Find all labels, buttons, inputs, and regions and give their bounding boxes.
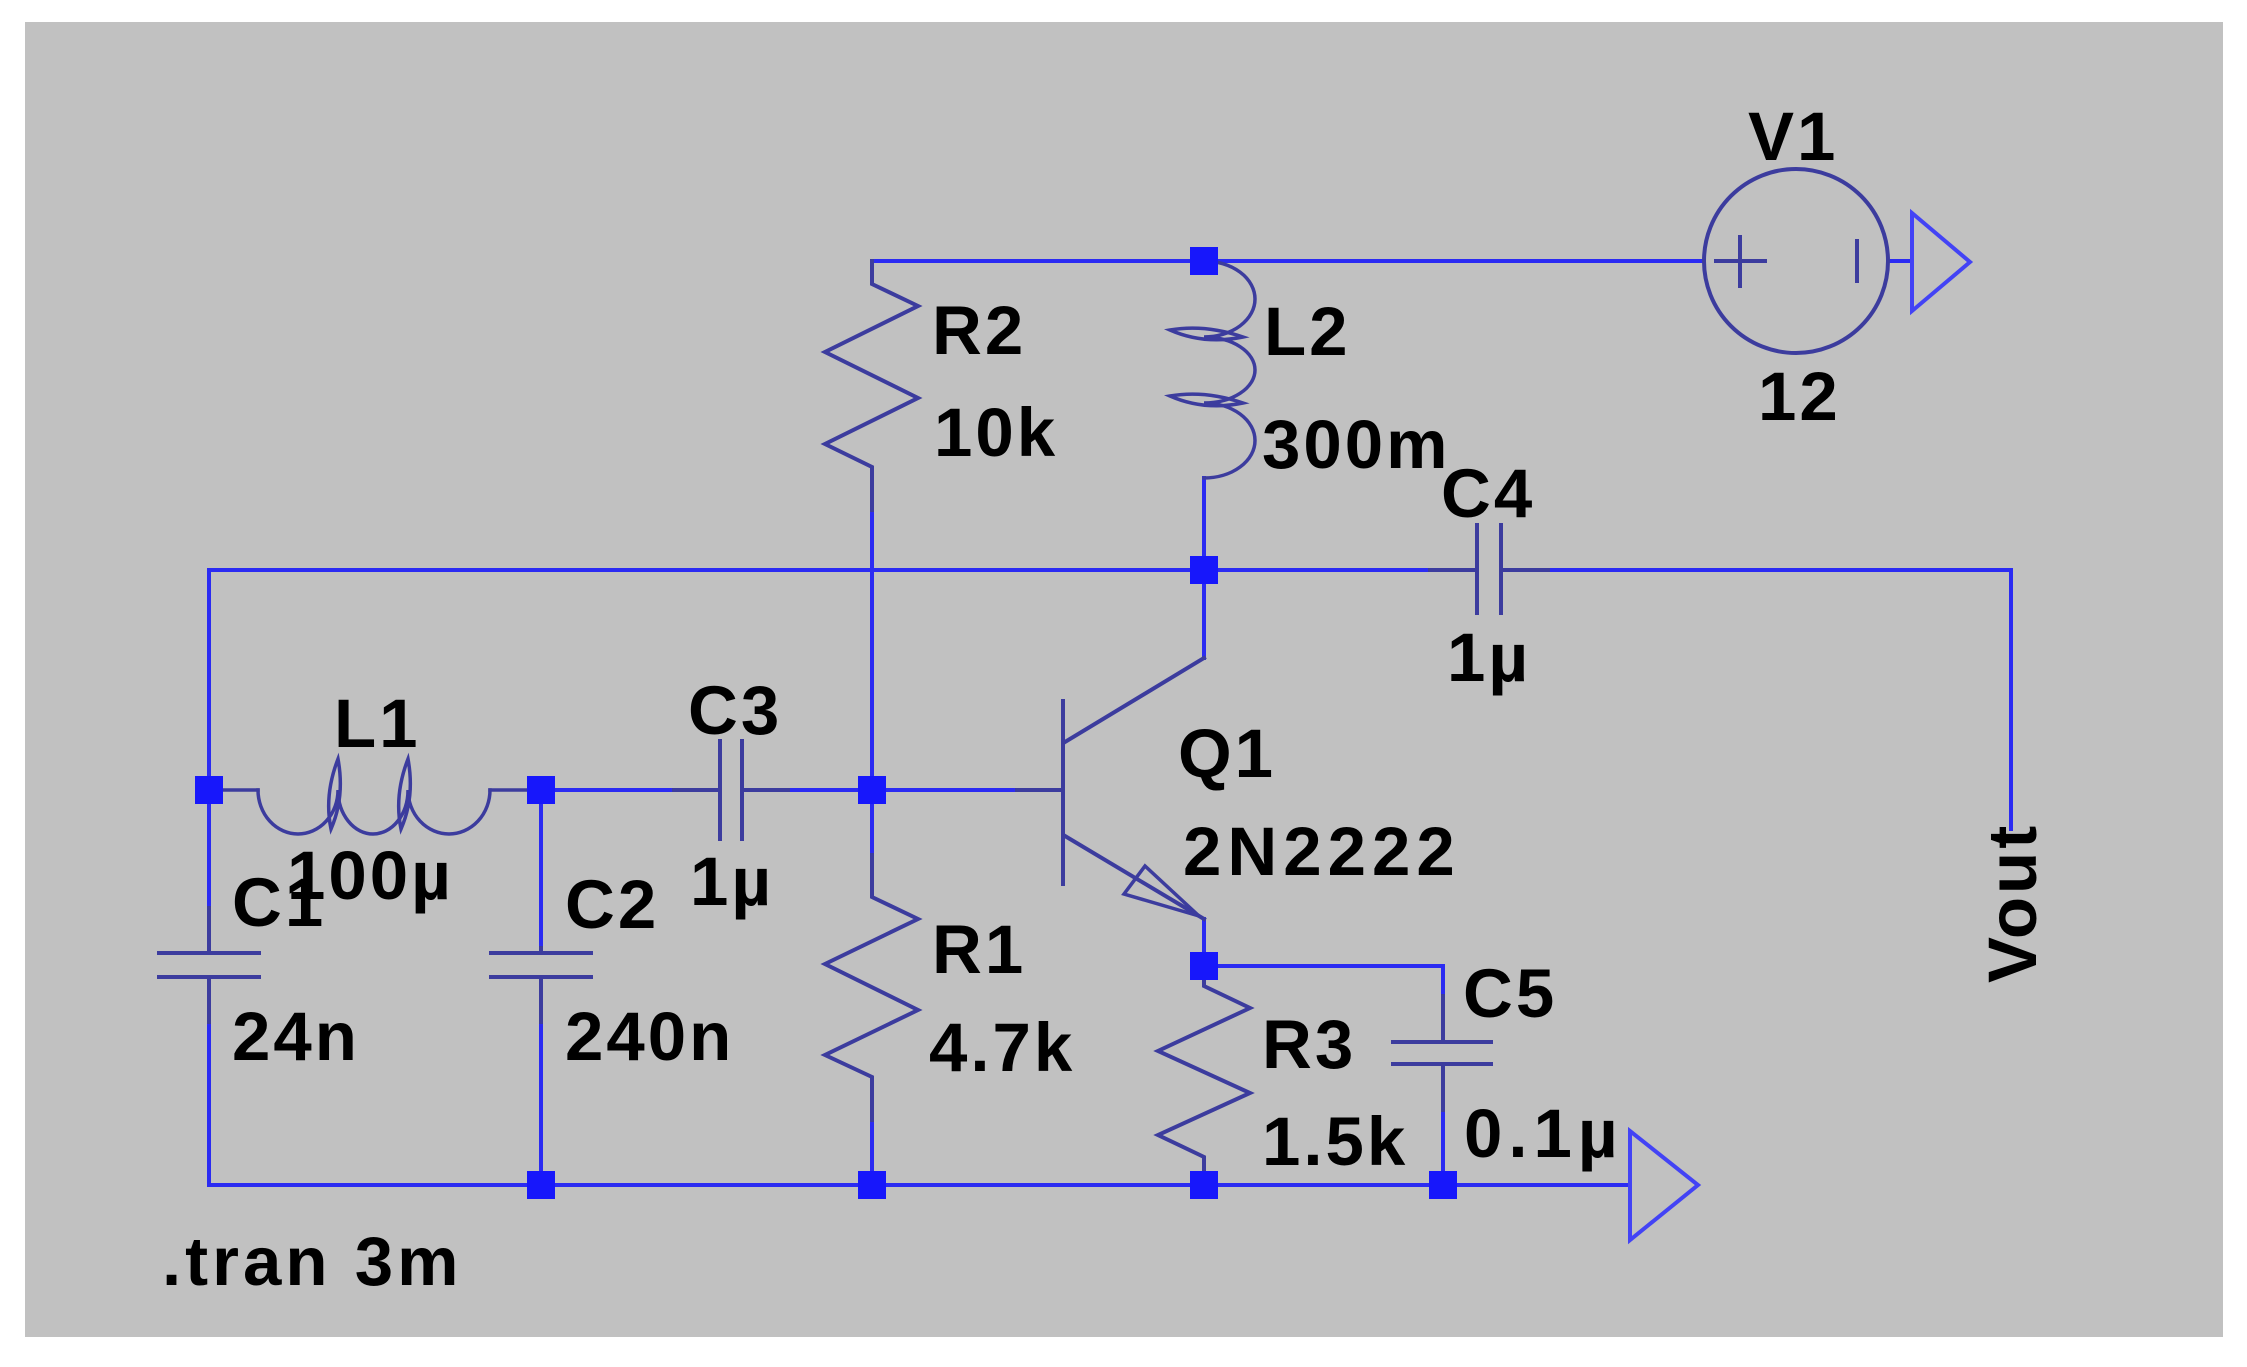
wire C3 right plate to base node xyxy=(788,788,872,792)
svg-text:R2: R2 xyxy=(932,292,1026,369)
wire R1 top lead from base node xyxy=(870,790,874,855)
svg-text:100µ: 100µ xyxy=(287,837,454,914)
wire right corner down to Vout label xyxy=(2009,570,2013,829)
node at left wire / L1 xyxy=(195,776,223,804)
svg-text:Vout: Vout xyxy=(1974,823,2051,983)
svg-text:24n: 24n xyxy=(232,998,360,1075)
wire C2 branch lower xyxy=(539,977,543,1185)
svg-text:C4: C4 xyxy=(1441,455,1535,532)
resistor R3 xyxy=(1158,980,1250,1185)
svg-text:300m: 300m xyxy=(1262,406,1450,483)
svg-text:C2: C2 xyxy=(565,866,659,943)
wire collector node to Q1 collector xyxy=(1202,570,1206,658)
node at collector / feedback / C4 xyxy=(1190,556,1218,584)
node at base / R2 / R1 / C3 xyxy=(858,776,886,804)
wire V1 right stub to arrow xyxy=(1888,259,1912,263)
wire base node to Q1 base bar xyxy=(872,788,1017,792)
node at L1 / C2 / C3 xyxy=(527,776,555,804)
svg-text:1.5k: 1.5k xyxy=(1262,1103,1408,1180)
wire left vertical upper (corner to C1 top plate) xyxy=(207,570,211,908)
node at bottom rail / R1 xyxy=(858,1171,886,1199)
wire C5 corner down to C5 top plate xyxy=(1441,966,1445,996)
net flag arrow at V1 output xyxy=(1912,213,1970,311)
wire collector node to C4 left plate xyxy=(1204,568,1477,572)
resistor R2 xyxy=(825,261,918,510)
svg-text:R3: R3 xyxy=(1262,1006,1356,1083)
wire L2 bottom lead xyxy=(1202,478,1206,570)
wire R2 bottom to base node xyxy=(870,510,874,790)
wire L1 node to C3 left plate xyxy=(541,788,674,792)
node at top rail / L2 xyxy=(1190,247,1218,275)
capacitor C3 xyxy=(674,741,788,839)
node at bottom rail / R3 xyxy=(1190,1171,1218,1199)
voltage source V1 xyxy=(1704,169,1888,353)
node at emitter / R3 / C5 xyxy=(1190,952,1218,980)
wire C5 bottom plate to bottom rail xyxy=(1441,1110,1445,1185)
node at bottom rail / C5 xyxy=(1429,1171,1457,1199)
svg-text:R1: R1 xyxy=(932,911,1026,988)
wire C4 right plate to right corner xyxy=(1501,568,2011,572)
wire emitter node to C5 corner xyxy=(1204,964,1443,968)
svg-text:240n: 240n xyxy=(565,998,734,1075)
svg-text:C5: C5 xyxy=(1463,955,1557,1032)
svg-text:1µ: 1µ xyxy=(1447,619,1531,696)
capacitor C4 xyxy=(1430,525,1548,613)
svg-text:V1: V1 xyxy=(1748,98,1838,175)
svg-text:L2: L2 xyxy=(1264,293,1351,370)
wire C2 branch upper xyxy=(539,790,543,948)
svg-text:.tran 3m: .tran 3m xyxy=(162,1223,462,1300)
wire R1 bottom lead lower part xyxy=(870,1120,874,1185)
svg-text:1µ: 1µ xyxy=(690,843,774,920)
net flag arrow at bottom rail xyxy=(1630,1131,1698,1240)
svg-text:12: 12 xyxy=(1758,358,1841,435)
inductor L1 xyxy=(209,759,541,834)
inductor L2 xyxy=(1170,261,1255,478)
wire left vertical lower (C1 bottom plate to bottom rail) xyxy=(207,977,211,1185)
resistor R1 xyxy=(825,855,918,1120)
wire feedback line left corner to collector node xyxy=(209,568,1204,572)
capacitor C5 xyxy=(1393,996,1491,1110)
capacitor C2 xyxy=(491,948,591,1022)
svg-text:2N2222: 2N2222 xyxy=(1183,813,1461,890)
svg-text:L1: L1 xyxy=(334,685,421,762)
transistor Q1 xyxy=(1017,658,1204,919)
wire bottom ground rail xyxy=(209,1183,1630,1187)
capacitor C1 xyxy=(159,908,259,1022)
svg-text:10k: 10k xyxy=(934,394,1058,471)
svg-text:0.1µ: 0.1µ xyxy=(1464,1095,1624,1172)
svg-text:Q1: Q1 xyxy=(1178,715,1276,792)
wire Q1 emitter to emitter node xyxy=(1202,919,1206,966)
node at bottom rail / C2 xyxy=(527,1171,555,1199)
svg-text:4.7k: 4.7k xyxy=(929,1009,1075,1086)
svg-text:C3: C3 xyxy=(688,672,782,749)
wire top supply rail from R2 top to V1 xyxy=(872,259,1704,263)
